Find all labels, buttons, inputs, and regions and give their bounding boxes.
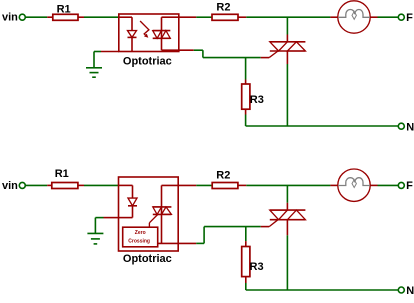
svg-text:R2: R2 [216,2,230,14]
wire N rail (bottom) [246,289,398,291]
wire vin to R1 (bottom) [26,184,48,186]
terminal F (top) [398,12,413,24]
resistor R3 (top) [242,58,264,126]
light arrow inside optotriac (top) [140,21,149,38]
resistor R1 (top) [47,3,84,20]
wire optotriac out to gate (bottom) [196,227,269,244]
wire R1 to optotriac (bottom) [84,184,119,186]
wire rail to triac MT2 (top) [286,17,288,42]
wire optotriac cathode to ground (top) [94,52,119,68]
svg-text:vin: vin [2,180,18,192]
wire rail to triac MT2 (bottom) [286,185,288,210]
triac inside optotriac (top) [153,17,171,50]
lamp (top) [330,1,377,33]
wire vin to R1 [26,16,48,18]
wire optotriac to R2 (bottom) [162,184,213,186]
svg-text:R2: R2 [216,169,230,181]
wire R2 to lamp [246,16,330,18]
lamp (bottom) [330,169,377,201]
svg-text:R1: R1 [57,3,71,15]
svg-text:N: N [406,121,414,133]
wire lamp to F (top) [378,16,399,18]
resistor R3 (bottom) [242,227,264,290]
wire N rail (top) [246,125,399,127]
wire R1 to optotriac [84,16,119,18]
svg-text:R1: R1 [55,168,69,180]
wire R2 to lamp (bottom) [246,184,330,186]
ground (top) [86,68,102,77]
svg-text:vin: vin [2,12,18,24]
transistor Q1: triac (top) [269,42,305,58]
terminal F (bottom) [398,180,413,192]
wire triac MT1 down to N rail (bottom) [286,220,288,290]
wire optotriac to R2 [162,16,213,18]
resistor R2 (bottom) [212,169,246,188]
diode LED inside optotriac (top) [119,17,137,51]
svg-text:Crossing: Crossing [128,239,150,245]
svg-text:Zero: Zero [135,230,146,236]
node vin (top) [2,12,18,24]
terminal vin (bottom) [19,182,25,188]
svg-text:R3: R3 [250,261,264,273]
diode LED inside optotriac (bottom) [119,185,138,217]
terminal N (top) [398,121,414,133]
wire optotriac out to gate (top) [162,50,270,57]
svg-text:N: N [406,285,414,297]
transistor Q2: triac (bottom) [269,210,305,227]
svg-text:Optotriac: Optotriac [123,56,172,68]
triac inside optotriac (bottom) [149,185,171,243]
resistor R2 (top) [212,2,246,21]
svg-text:Optotriac: Optotriac [123,253,172,265]
svg-text:R3: R3 [250,94,264,106]
zero crossing box inside optotriac (bottom) [123,227,158,247]
node vin (bottom) [2,180,18,192]
op-amp U1: optotriac box (top) [119,14,179,68]
op-amp U2: optotriac box (bottom) [119,177,179,265]
wire optotriac cathode to ground (bottom) [95,218,118,234]
terminal vin (top) [19,14,25,20]
svg-text:F: F [406,180,413,192]
resistor R1 (bottom) [47,168,84,189]
wire zero crossing box to output pin (bottom) [158,242,197,244]
ground (bottom) [87,233,103,244]
terminal N (bottom) [398,285,414,297]
wire triac MT1 down to N rail (top) [286,51,288,126]
svg-text:F: F [406,12,413,24]
wire lamp to F (bottom) [378,184,399,186]
